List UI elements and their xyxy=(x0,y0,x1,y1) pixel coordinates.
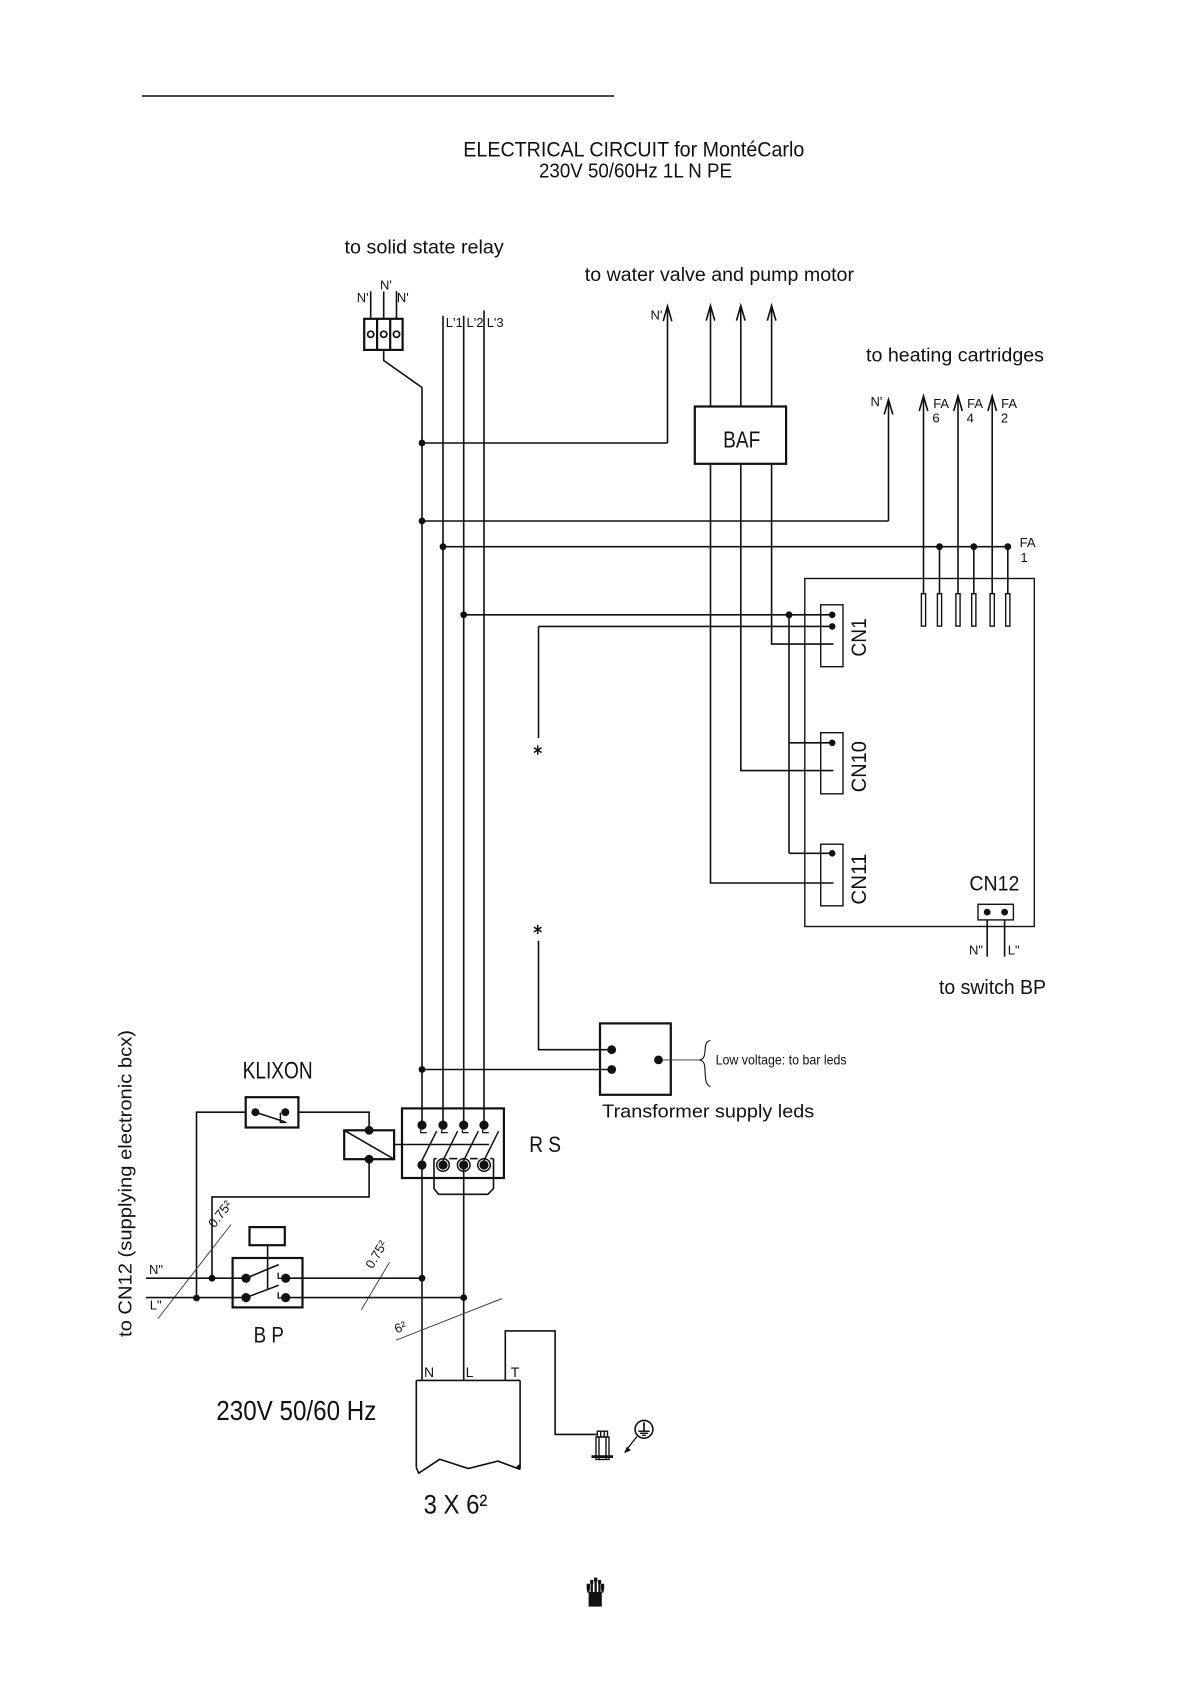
svg-text:N": N" xyxy=(149,1262,163,1277)
svg-text:to heating cartridges: to heating cartridges xyxy=(866,346,1044,367)
wire: transformer right lead to brace xyxy=(663,1059,702,1061)
svg-text:to solid state relay: to solid state relay xyxy=(345,238,505,259)
svg-text:FA: FA xyxy=(967,396,983,411)
switch BP xyxy=(233,1258,303,1307)
svg-text:to switch BP: to switch BP xyxy=(939,977,1046,999)
svg-text:N': N' xyxy=(357,290,369,305)
wire: coil armature link to RS contacts xyxy=(394,1144,489,1146)
wire: vertical L'2 (x=463.7) upper xyxy=(463,316,465,1125)
svg-text:L: L xyxy=(466,1364,474,1380)
relay coil RS xyxy=(344,1126,394,1164)
wire: N' arrow (heating) xyxy=(884,400,893,522)
svg-text:CN12: CN12 xyxy=(969,873,1019,896)
cable marker 6² xyxy=(396,1299,502,1341)
svg-text:3 X 6²: 3 X 6² xyxy=(424,1489,488,1519)
wire: L" line right part to L'2 net xyxy=(286,1297,464,1299)
svg-text:4: 4 xyxy=(967,410,974,425)
svg-text:R S: R S xyxy=(529,1132,561,1157)
wire: CN1 feed line 2 (y=626.4) from * net xyxy=(539,625,833,627)
svg-text:KLIXON: KLIXON xyxy=(243,1057,313,1084)
svg-text:N': N' xyxy=(871,394,883,409)
leader line from earth circle to lug xyxy=(624,1437,637,1454)
junction dot (212,1278.2) on N" xyxy=(209,1275,216,1282)
junction dot (463.7,1297.6) xyxy=(460,1294,467,1301)
svg-text:N": N" xyxy=(969,943,983,958)
svg-text:N': N' xyxy=(651,307,663,322)
junction dot (196.5,1298) on L" xyxy=(193,1295,200,1302)
svg-text:Low voltage: to bar leds: Low voltage: to bar leds xyxy=(716,1052,847,1068)
svg-text:L'1: L'1 xyxy=(446,315,463,330)
junction dot (422,443) xyxy=(419,440,426,447)
junction dots on FA1 line xyxy=(936,543,943,550)
wire: horizontal N net to valve arrow (y=443) xyxy=(422,442,668,444)
svg-text:L": L" xyxy=(1008,943,1020,958)
wire: FA4 arrow xyxy=(954,396,963,594)
svg-text:BAF: BAF xyxy=(723,426,760,452)
svg-text:CN10: CN10 xyxy=(848,741,871,792)
wire: CN12 lead N" xyxy=(986,920,988,957)
junction dot (422,521) xyxy=(419,518,426,525)
wire: vertical N net lower segment RS to terminal N xyxy=(421,1165,423,1380)
svg-text:6: 6 xyxy=(932,410,939,425)
wire: L" line left part xyxy=(146,1297,246,1299)
cable marker 0.75² (left) xyxy=(158,1225,231,1319)
svg-text:B P: B P xyxy=(254,1323,284,1348)
thermostat KLIXON xyxy=(246,1097,299,1127)
wire: X1 lead middle N' xyxy=(383,292,385,319)
asterisk 2 xyxy=(534,925,542,934)
svg-text:to water valve and pump motor: to water valve and pump motor xyxy=(585,265,855,286)
wire: vertical L'3 (x=484) xyxy=(483,311,485,1126)
connector CN11 xyxy=(821,844,843,906)
svg-text:CN11: CN11 xyxy=(848,854,871,905)
wire: BAF line 1 down to CN11 pin xyxy=(711,464,834,883)
wire: vertical L'1 (x=443) xyxy=(442,316,444,1125)
transformer box xyxy=(600,1023,671,1094)
asterisk 1 xyxy=(534,745,542,754)
fuse holders (6 pins) xyxy=(921,594,1010,626)
electronic board outline xyxy=(805,579,1035,927)
wire: horizontal N net to heating N' (y=521) xyxy=(422,520,889,522)
svg-text:N': N' xyxy=(397,290,409,305)
wire: T earth path xyxy=(505,1331,596,1435)
brace { xyxy=(700,1041,711,1087)
svg-text:0.75²: 0.75² xyxy=(362,1237,390,1271)
svg-text:N: N xyxy=(424,1364,434,1380)
svg-text:1: 1 xyxy=(1020,550,1027,565)
supply terminal block (torn box) xyxy=(416,1380,520,1473)
junction dot (422,1278.2) xyxy=(419,1275,426,1282)
svg-text:L'2: L'2 xyxy=(467,315,484,330)
wire: FA2 arrow xyxy=(988,396,997,594)
wire: transformer lead 2 to N net (y=1069.5) xyxy=(422,1069,612,1071)
connector CN12 xyxy=(978,904,1013,920)
wire: coil return to N" xyxy=(212,1159,369,1278)
earth symbol in circle xyxy=(635,1420,653,1438)
svg-text:L'3: L'3 xyxy=(487,315,504,330)
wire: KLIXON right lead to relay coil xyxy=(298,1112,369,1130)
junction dot (789,614.8) xyxy=(786,611,793,618)
wire: X1 lead right N' xyxy=(396,291,398,319)
wire: FA6 arrow xyxy=(919,396,928,594)
wire: X1 middle pin down + diagonal to N net xyxy=(384,350,422,388)
wire: N" line left part xyxy=(146,1277,246,1279)
junction dot (422,1069.5) xyxy=(419,1066,426,1073)
wire: X1 lead left N' xyxy=(370,291,372,319)
connector X1 (solid state relay, 3-pole) xyxy=(364,319,402,350)
wire: feeder vertical x=789 with branch to CN10 and CN11 xyxy=(788,615,790,854)
wire: N' arrow to water valve xyxy=(663,306,672,443)
wire: * net upper segment xyxy=(538,626,540,738)
svg-text:L": L" xyxy=(150,1297,162,1312)
svg-text:Transformer supply leds: Transformer supply leds xyxy=(602,1100,814,1121)
svg-text:2: 2 xyxy=(1001,410,1008,425)
BP coupling link xyxy=(267,1245,269,1290)
svg-text:CN1: CN1 xyxy=(848,618,871,656)
svg-text:230V 50/60 Hz: 230V 50/60 Hz xyxy=(216,1395,376,1426)
svg-text:FA: FA xyxy=(933,396,949,411)
relay contact block RS xyxy=(402,1108,504,1194)
connector CN10 xyxy=(821,733,843,794)
junction dot (443,546.7) xyxy=(440,543,447,550)
earth lug connector xyxy=(592,1431,614,1459)
wire: vertical N net (x=422) upper segment down to RS contact 1 xyxy=(421,388,423,1126)
top rule xyxy=(142,95,614,97)
wire: vertical L'2 lower segment RS to terminal L xyxy=(463,1165,465,1380)
push button coil rect above BP xyxy=(250,1227,285,1245)
BAF arrows (3) xyxy=(706,306,776,407)
svg-text:to CN12 (supplying electronic: to CN12 (supplying electronic bcx) xyxy=(116,1030,136,1337)
svg-text:FA: FA xyxy=(1020,535,1036,550)
wire: FA1 line (y=546.7) xyxy=(443,546,1008,548)
svg-text:N': N' xyxy=(380,278,392,293)
connector CN1 xyxy=(821,605,843,667)
cable marker 0.75² (right) xyxy=(361,1262,389,1309)
wire: BAF line 3 down to CN1 pin xyxy=(772,464,834,644)
svg-text:6²: 6² xyxy=(392,1318,409,1336)
svg-text:230V 50/60Hz 1L N PE: 230V 50/60Hz 1L N PE xyxy=(539,161,732,183)
svg-text:FA: FA xyxy=(1001,396,1017,411)
wire: BAF line 2 down to CN10 pin xyxy=(741,464,834,771)
wire: KLIXON left lead down to L" xyxy=(197,1112,246,1298)
wire: CN1 feed line 1 (y=614.8) xyxy=(464,614,833,616)
wire: CN12 lead L" xyxy=(1004,920,1006,957)
svg-text:ELECTRICAL CIRCUIT for MontéCa: ELECTRICAL CIRCUIT for MontéCarlo xyxy=(463,139,804,162)
wire: N" line right part to N net xyxy=(286,1277,422,1279)
wire: * net lower segment to transformer xyxy=(539,941,612,1050)
junction dot (463.7,614.8) xyxy=(460,611,467,618)
box BAF xyxy=(695,407,786,464)
wire: FA1 drops to fuses xyxy=(939,547,941,594)
svg-text:T: T xyxy=(511,1364,520,1380)
hand icon xyxy=(587,1578,605,1607)
